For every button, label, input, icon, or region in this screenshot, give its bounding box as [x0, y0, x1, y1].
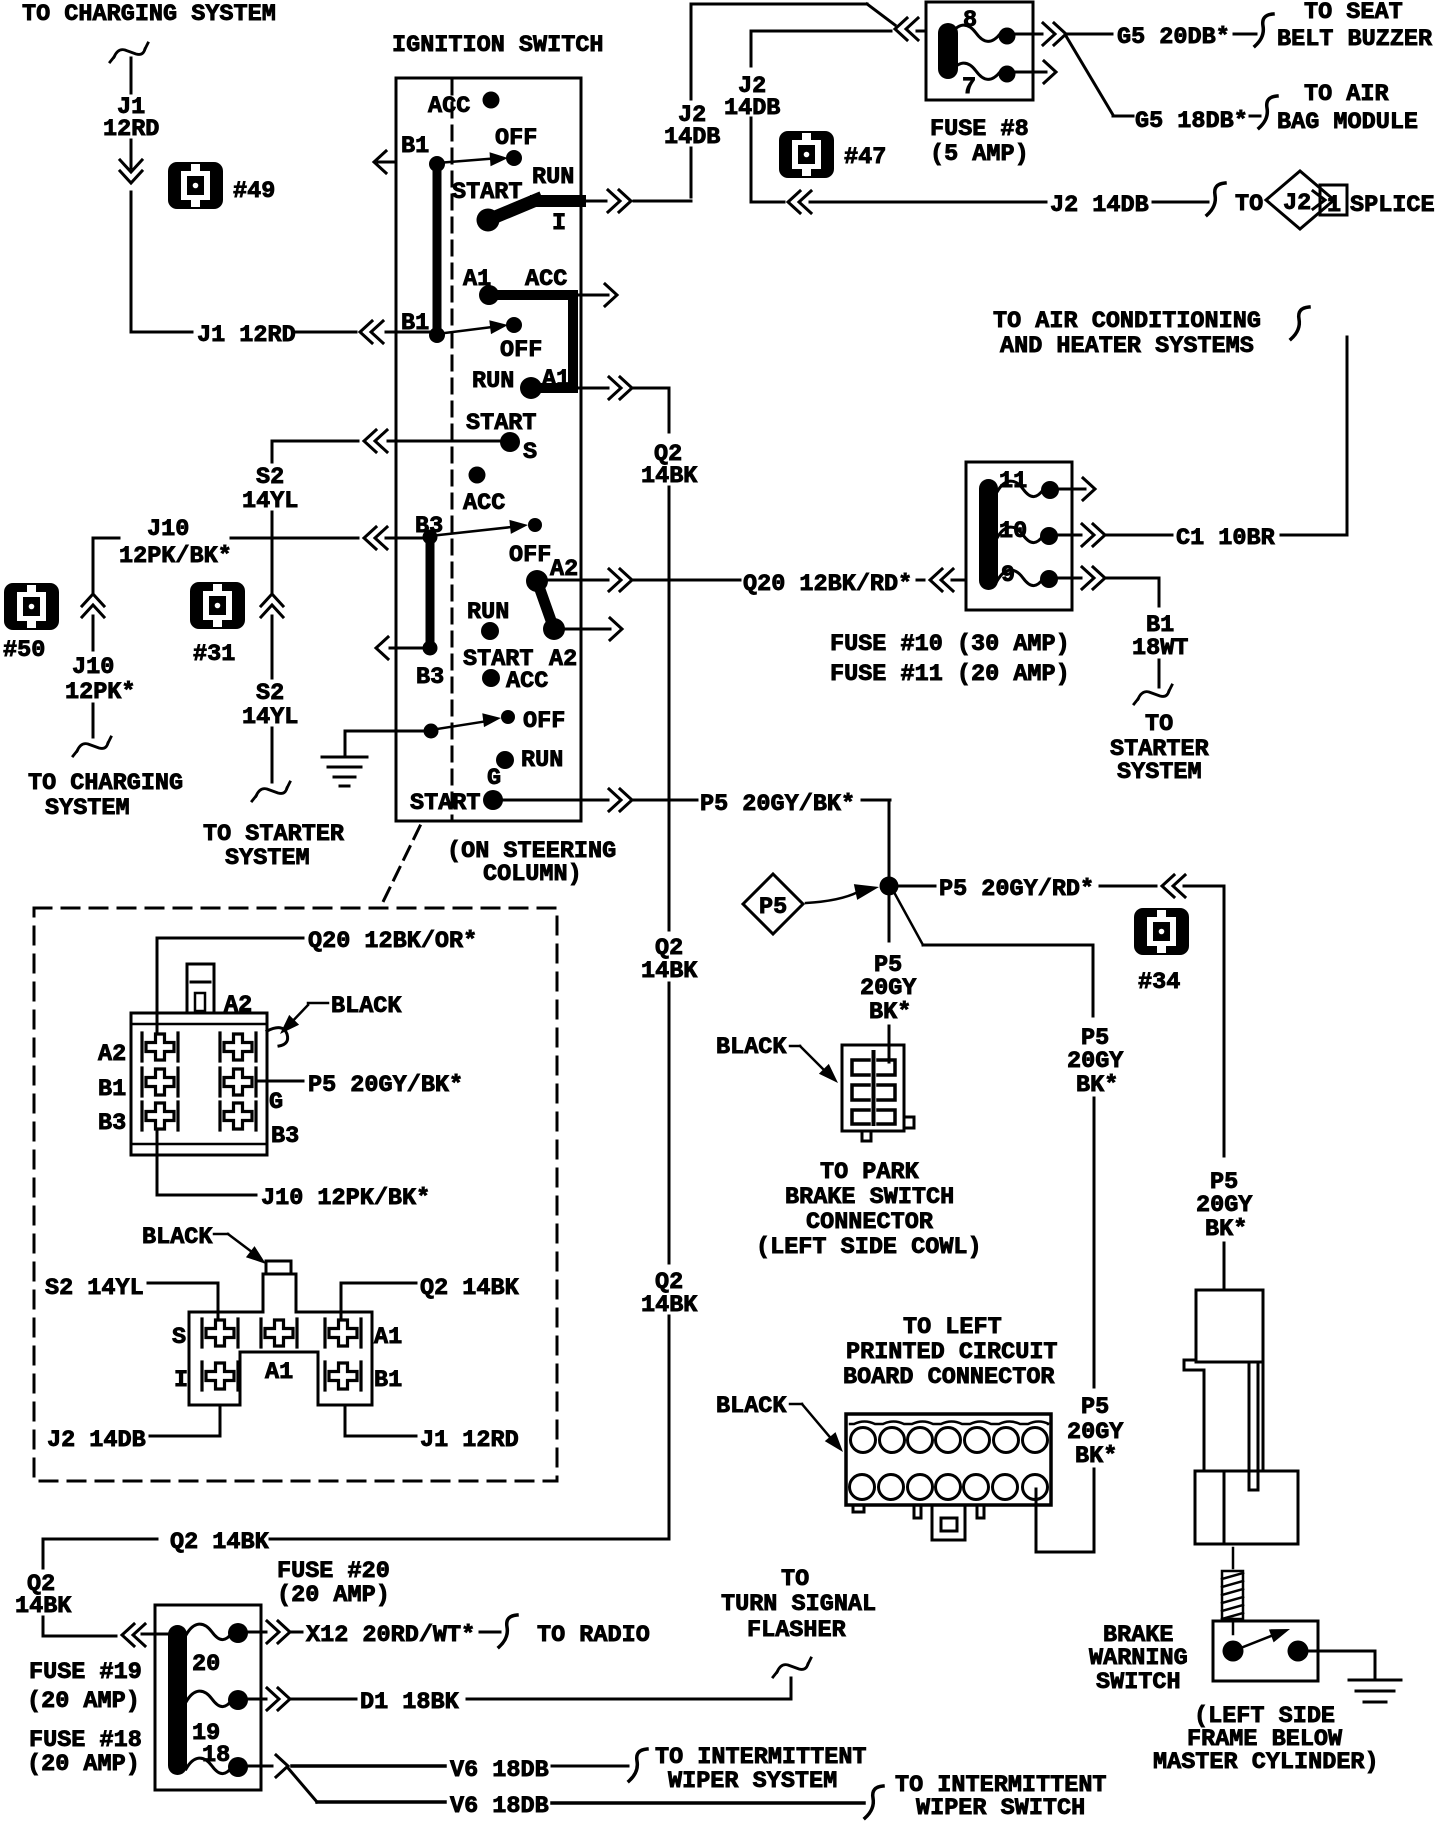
label TO AIR CONDITIONING AND HEATER SYSTEMS	[993, 308, 1261, 360]
wire P5 20GY/BK* (G pin)	[257, 1072, 463, 1099]
svg-text:TO: TO	[1145, 711, 1173, 738]
svg-text:G5 18DB*: G5 18DB*	[1135, 108, 1248, 135]
wire pin 8 out	[1016, 33, 1112, 36]
label RUN A1 (lower)	[472, 366, 570, 395]
wire V6 18DB (wiper system)	[248, 1765, 445, 1768]
svg-text:B1: B1	[98, 1076, 126, 1103]
wire into S terminal	[388, 440, 499, 443]
terminal START G	[410, 790, 503, 817]
wire P5 right vertical to brake warning switch	[1223, 1243, 1226, 1290]
wire P5 into PCB connector	[1036, 1469, 1094, 1552]
splice reference diamond P5	[743, 874, 803, 934]
svg-text:V6 18DB: V6 18DB	[450, 1757, 549, 1784]
B3 bus bar (thick)	[426, 540, 435, 648]
label TO AIR BAG MODULE	[1277, 81, 1418, 136]
fuse element pin 19	[186, 1690, 248, 1710]
label TO PARK BRAKE SWITCH CONNECTOR (LEFT SIDE COWL)	[756, 1159, 982, 1261]
svg-text:J10 12PK/BK*: J10 12PK/BK*	[261, 1185, 430, 1212]
svg-text:A1: A1	[265, 1359, 293, 1386]
node: TO CHARGING SYSTEM label (top)	[22, 1, 276, 28]
label TO CHARGING SYSTEM (bottom)	[28, 770, 183, 822]
pin B1 (ignition connector)	[142, 1068, 178, 1096]
svg-text:A2: A2	[224, 992, 252, 1019]
svg-text:J2: J2	[1283, 190, 1311, 217]
fuse 8 pin 8 label	[963, 7, 977, 34]
connector #34	[1134, 908, 1189, 996]
svg-text:START: START	[452, 179, 523, 206]
label (ON STEERING COLUMN)	[447, 838, 616, 888]
wire J10 12PK/BK* (B3 pin)	[157, 1130, 430, 1212]
wire B1 18WT lower	[1158, 660, 1161, 687]
svg-text:AND HEATER SYSTEMS: AND HEATER SYSTEMS	[1000, 333, 1254, 360]
svg-text:B3: B3	[98, 1110, 126, 1137]
svg-text:G: G	[487, 765, 501, 792]
contact OFF dot (lower B1 row)	[500, 317, 542, 364]
label P5 20GY BK* (park brake wire)	[860, 952, 917, 1026]
svg-text:1: 1	[1327, 192, 1341, 219]
svg-text:BLACK: BLACK	[331, 993, 402, 1020]
svg-text:OFF: OFF	[523, 708, 565, 735]
label J1 12RD (vertical wire)	[103, 94, 159, 143]
connector chevrons on START wire	[609, 789, 632, 811]
connector chevrons on J10 wire	[364, 527, 387, 549]
wire to intermittent wiper system brace	[552, 1749, 647, 1781]
svg-text:Q20 12BK/OR*: Q20 12BK/OR*	[308, 928, 477, 955]
terminal B3 lower dot and open chevron	[376, 637, 444, 691]
wire ground row	[345, 731, 424, 756]
terminal ACC (top)	[428, 92, 500, 121]
svg-text:B1: B1	[401, 310, 429, 337]
wire ACC arrow out	[578, 284, 617, 306]
label Q2 14BK (1)	[641, 441, 698, 490]
svg-text:OFF: OFF	[509, 542, 551, 569]
fuse 10/11 caption	[830, 631, 1070, 688]
fuse element pin 9	[997, 570, 1058, 588]
svg-text:TO CHARGING: TO CHARGING	[28, 770, 183, 797]
svg-text:FUSE #8: FUSE #8	[930, 116, 1029, 143]
label J2 14DB (splice wire)	[1050, 192, 1149, 219]
svg-text:ACC: ACC	[506, 668, 548, 695]
svg-text:FLASHER: FLASHER	[747, 1617, 847, 1644]
svg-text:Q20 12BK/RD*: Q20 12BK/RD*	[743, 571, 912, 598]
fuse #10/#11 box	[966, 462, 1072, 610]
svg-text:BRAKE SWITCH: BRAKE SWITCH	[785, 1184, 954, 1211]
label START (S row)	[466, 410, 537, 437]
svg-text:FUSE #19: FUSE #19	[29, 1659, 142, 1686]
svg-text:BLACK: BLACK	[716, 1034, 787, 1061]
fuse pin 9 label	[1001, 562, 1015, 589]
wire Q2 down-left corner	[42, 1539, 45, 1568]
switch lever A2 (thick)	[526, 570, 565, 640]
leader from P5 diamond to junction	[806, 879, 881, 903]
label J10 12PK/BK*	[119, 516, 232, 570]
wire to air bag module	[1250, 96, 1277, 128]
svg-text:20GY: 20GY	[1067, 1048, 1124, 1075]
label START A2	[463, 646, 577, 673]
wire Q2 14BK vertical (segment 2)	[668, 487, 671, 930]
pin A2 (ignition connector)	[142, 1033, 178, 1061]
wire J10 lower	[92, 704, 95, 737]
svg-text:FUSE #11 (20 AMP): FUSE #11 (20 AMP)	[830, 661, 1070, 688]
fuse pin 10 label	[999, 518, 1027, 545]
label TO STARTER SYSTEM (left)	[203, 821, 345, 872]
wire P5 to right corner	[1184, 886, 1224, 1156]
wire into master cylinder	[1223, 1258, 1226, 1290]
fuse 8 pin 7 label	[962, 74, 976, 101]
wire J1 12RD vertical	[130, 58, 133, 332]
wire Q20 12BK/OR*	[157, 938, 303, 1033]
svg-text:I: I	[552, 210, 566, 237]
wire break symbol above J1	[110, 43, 148, 62]
label TO LEFT PRINTED CIRCUIT BOARD CONNECTOR	[843, 1314, 1058, 1391]
wire Q2 14BK vertical (segment 4)	[668, 1316, 671, 1539]
svg-text:TO: TO	[781, 1566, 809, 1593]
wire START out (P5)	[503, 799, 697, 802]
wire into splice brace	[1153, 183, 1225, 215]
inline connector chevrons on S2 vertical	[261, 594, 283, 617]
connector #49	[168, 162, 275, 209]
wire Q20 12BK/RD* into fuse pin 9	[743, 569, 966, 598]
wire pin 9 to B1 18WT	[1058, 578, 1159, 606]
connector chevrons on J2 splice wire	[751, 191, 811, 213]
svg-text:J10: J10	[72, 654, 114, 681]
wire to intermittent wiper switch	[552, 1786, 883, 1818]
connector chevrons on A1 wire	[609, 377, 632, 399]
wire Q2 14BK bottom horizontal	[43, 1538, 669, 1541]
label V6 18DB (1)	[450, 1757, 549, 1784]
svg-text:14DB: 14DB	[724, 95, 780, 122]
connector #50	[3, 583, 59, 664]
terminal ACC dot (middle)	[463, 467, 505, 518]
svg-text:A2: A2	[549, 646, 577, 673]
svg-text:BOARD CONNECTOR: BOARD CONNECTOR	[843, 1364, 1055, 1391]
ground symbol	[322, 757, 367, 786]
fuse 8 caption	[930, 116, 1029, 168]
label 19	[192, 1720, 220, 1747]
wire P5 down from junction	[888, 895, 891, 941]
label RUN (A2 row)	[467, 599, 509, 640]
fuse element pin 10	[997, 527, 1058, 545]
wire I terminal to J2	[581, 200, 691, 203]
label X12 20RD/WT*	[306, 1622, 475, 1649]
fuse 19 caption	[27, 1659, 142, 1715]
fuse 18 caption	[27, 1727, 142, 1778]
pin B3 right (ignition connector)	[220, 1102, 256, 1130]
B1 bus bar (thick)	[433, 165, 442, 333]
wire A2 out to Q20	[546, 579, 740, 582]
wire A2 lower arrow out	[563, 618, 622, 640]
svg-text:ACC: ACC	[428, 93, 470, 120]
pin I (key-in connector)	[202, 1362, 238, 1390]
wire A1 run out to Q2	[578, 387, 669, 390]
svg-text:18WT: 18WT	[1132, 635, 1188, 662]
svg-text:SWITCH: SWITCH	[1096, 1669, 1181, 1696]
svg-text:(20 AMP): (20 AMP)	[27, 1751, 140, 1778]
svg-text:20: 20	[192, 1651, 220, 1678]
label C1 10BR	[1176, 525, 1276, 552]
svg-text:WIPER SYSTEM: WIPER SYSTEM	[668, 1768, 837, 1795]
terminal RUN/A1 dot	[520, 377, 542, 399]
wire J2 14DB (second vertical to splice)	[751, 31, 891, 202]
ignition switch internal dashed line	[451, 80, 454, 819]
fuse element pin 18	[186, 1757, 248, 1777]
svg-text:12PK/BK*: 12PK/BK*	[119, 543, 232, 570]
svg-text:WIPER SWITCH: WIPER SWITCH	[916, 1795, 1085, 1822]
master cylinder bracket	[1184, 1290, 1298, 1544]
connector #31	[190, 582, 245, 668]
park brake switch connector	[842, 1045, 914, 1141]
wire S2 14YL (key-in)	[45, 1275, 218, 1319]
svg-text:SYSTEM: SYSTEM	[45, 795, 130, 822]
label SPLICE	[1350, 192, 1435, 219]
label TO SEAT BELT BUZZER	[1277, 0, 1433, 53]
svg-text:BELT BUZZER: BELT BUZZER	[1277, 26, 1433, 53]
svg-text:FUSE #18: FUSE #18	[29, 1727, 142, 1754]
wire J2 14DB (key-in bottom)	[47, 1405, 220, 1454]
junction node P5	[880, 877, 899, 896]
label J2 14DB (left vertical)	[664, 102, 720, 151]
pin B1 (key-in connector)	[325, 1362, 361, 1390]
svg-text:J10: J10	[147, 516, 189, 543]
svg-text:18: 18	[202, 1742, 230, 1769]
svg-text:14DB: 14DB	[664, 124, 720, 151]
label START (I row)	[452, 179, 523, 206]
terminal B1 (upper)	[401, 133, 429, 160]
wire J1 12RD horizontal to ignition switch B1	[131, 331, 434, 334]
label A2 (connector tab)	[224, 992, 252, 1019]
svg-text:J1 12RD: J1 12RD	[197, 322, 296, 349]
dashed connector detail box	[34, 908, 557, 1481]
label P5 20GY BK* (right wire)	[1196, 1169, 1253, 1243]
svg-text:(20 AMP): (20 AMP)	[27, 1688, 140, 1715]
svg-text:J1 12RD: J1 12RD	[420, 1427, 519, 1454]
fuse #8 box	[926, 2, 1033, 100]
wire break to starter system	[1134, 685, 1172, 704]
svg-text:TURN SIGNAL: TURN SIGNAL	[721, 1591, 876, 1618]
wire J2 14DB (from I terminal up to fuse 8)	[691, 4, 895, 197]
svg-text:V6 18DB: V6 18DB	[450, 1793, 549, 1820]
svg-text:A1: A1	[374, 1324, 402, 1351]
connector chevrons on A2 wire	[609, 569, 632, 591]
svg-text:TO AIR: TO AIR	[1304, 81, 1390, 108]
svg-text:BK*: BK*	[1075, 1443, 1117, 1470]
left printed circuit board connector	[846, 1414, 1051, 1540]
fuse #18/19/20 box	[155, 1605, 261, 1790]
label Q2 14BK (stack)	[15, 1571, 72, 1620]
svg-text:CONNECTOR: CONNECTOR	[806, 1209, 934, 1236]
fuse element pin 8	[950, 25, 1016, 44]
ground symbol (brake switch)	[1349, 1680, 1401, 1702]
svg-text:P5: P5	[1081, 1394, 1109, 1421]
wire S2 14YL (from S terminal)	[272, 441, 358, 462]
pin S (key-in connector)	[202, 1319, 238, 1347]
svg-text:12PK*: 12PK*	[65, 679, 136, 706]
svg-text:A1: A1	[542, 366, 570, 393]
svg-text:(5 AMP): (5 AMP)	[930, 141, 1029, 168]
svg-text:TO PARK: TO PARK	[820, 1159, 920, 1186]
label TO INTERMITTENT WIPER SWITCH	[895, 1772, 1107, 1822]
svg-text:RUN: RUN	[467, 599, 509, 626]
switch wiper ground to OFF	[424, 711, 502, 738]
pin (right top, ignition connector)	[220, 1033, 256, 1061]
fuse element pin 11	[997, 481, 1059, 499]
svg-text:J2 14DB: J2 14DB	[1050, 192, 1149, 219]
terminal A1 with ACC label	[463, 266, 567, 293]
svg-text:14YL: 14YL	[242, 704, 298, 731]
ignition switch box	[396, 78, 581, 821]
label TO TURN SIGNAL FLASHER	[721, 1566, 876, 1644]
svg-text:FUSE #10 (30 AMP): FUSE #10 (30 AMP)	[830, 631, 1070, 658]
ignition switch title	[392, 32, 604, 59]
fuse pin 11 label	[999, 468, 1027, 495]
svg-text:TO LEFT: TO LEFT	[903, 1314, 1002, 1341]
label B1 18WT	[1132, 612, 1188, 662]
label 20	[192, 1651, 220, 1678]
fuse element pin 7	[950, 63, 1016, 82]
wire break (charging system)	[73, 737, 111, 756]
svg-text:ACC: ACC	[463, 490, 505, 517]
switch wiper lower B1 to OFF	[429, 318, 509, 343]
svg-text:G5 20DB*: G5 20DB*	[1117, 24, 1230, 51]
svg-text:BK*: BK*	[869, 999, 911, 1026]
svg-text:X12 20RD/WT*: X12 20RD/WT*	[306, 1622, 475, 1649]
wire pin 7 arrow out	[1016, 61, 1056, 83]
wire into park brake connector	[888, 1026, 891, 1062]
fuse 18/19/20 bus pill	[168, 1625, 187, 1775]
wire to seat belt buzzer	[1234, 14, 1273, 46]
svg-text:A2: A2	[98, 1041, 126, 1068]
svg-text:14BK: 14BK	[641, 958, 698, 985]
svg-text:S: S	[523, 439, 537, 466]
svg-text:SYSTEM: SYSTEM	[1117, 759, 1202, 786]
label (LEFT SIDE FRAME BELOW MASTER CYLINDER)	[1153, 1703, 1379, 1776]
wire break (starter system)	[252, 782, 290, 801]
connector chevron pin 18	[276, 1755, 288, 1777]
svg-text:TO STARTER: TO STARTER	[203, 821, 345, 848]
wire P5 middle vertical	[1093, 1098, 1096, 1387]
svg-text:START: START	[466, 410, 537, 437]
svg-text:BAG MODULE: BAG MODULE	[1277, 109, 1418, 136]
svg-text:S: S	[172, 1324, 186, 1351]
svg-text:BLACK: BLACK	[716, 1393, 787, 1420]
svg-text:START: START	[410, 790, 481, 817]
wire Q2 into fuse 20	[43, 1617, 168, 1636]
label BLACK (PCB connector)	[716, 1393, 848, 1456]
label Q20 12BK/OR*	[308, 928, 477, 955]
wire J2 14DB to splice	[810, 201, 1046, 204]
label RUN (I row)	[532, 164, 574, 191]
label Q2 14BK (3)	[641, 1269, 698, 1319]
switch wiper B3 to OFF	[423, 518, 529, 544]
wire V6 18DB diagonal branch	[288, 1768, 445, 1802]
connector chevrons pin 9	[1082, 567, 1105, 589]
wire Q2 14BK (key-in)	[341, 1275, 520, 1319]
contact OFF (B1 row)	[495, 125, 537, 166]
inline connector chevrons on J10 vertical	[82, 594, 104, 617]
wire Q2 14BK vertical (segment 1)	[668, 388, 671, 432]
switch wiper B1 to OFF	[429, 151, 508, 172]
svg-text:14YL: 14YL	[242, 488, 298, 515]
wire C1 10BR vertical	[1281, 337, 1347, 535]
pin G (ignition connector)	[220, 1068, 256, 1096]
label BLACK (park brake connector)	[716, 1034, 843, 1088]
label Q2 14BK (2)	[641, 935, 698, 985]
connector chevrons into fuse 20	[122, 1624, 145, 1646]
label D1 18BK	[360, 1689, 460, 1716]
terminal ACC dot (A2 row)	[482, 668, 548, 695]
svg-text:(LEFT SIDE COWL): (LEFT SIDE COWL)	[756, 1234, 982, 1261]
wire break (turn signal flasher)	[773, 1658, 811, 1677]
inline connector chevrons on J1 wire	[120, 160, 142, 183]
svg-text:BLACK: BLACK	[142, 1224, 213, 1251]
svg-text:C1 10BR: C1 10BR	[1176, 525, 1276, 552]
wire Q2 14BK vertical (segment 3)	[668, 983, 671, 1263]
connector chevrons into ignition switch B1	[360, 321, 383, 343]
fuse 8 bus pill	[938, 23, 958, 79]
svg-text:TO CHARGING SYSTEM: TO CHARGING SYSTEM	[22, 1, 276, 28]
svg-text:RUN: RUN	[532, 164, 574, 191]
label BRAKE WARNING SWITCH	[1089, 1622, 1188, 1696]
brake warning switch contacts	[1223, 1622, 1309, 1661]
terminal B1 (lower)	[401, 310, 429, 337]
svg-text:BK*: BK*	[1205, 1216, 1247, 1243]
label S2 14YL (upper)	[242, 464, 298, 515]
label V6 18DB (2)	[450, 1793, 549, 1820]
labels A2 B1 B3 G B3	[98, 1041, 299, 1150]
svg-text:TO INTERMITTENT: TO INTERMITTENT	[655, 1744, 867, 1771]
svg-text:7: 7	[962, 74, 976, 101]
fuse 20 caption	[277, 1558, 390, 1609]
key-in switch connector body	[189, 1261, 372, 1405]
svg-text:RUN: RUN	[521, 747, 563, 774]
svg-text:OFF: OFF	[500, 337, 542, 364]
wire P5 20GY/BK* label (START wire)	[700, 791, 855, 818]
brake warning switch plunger spring	[1222, 1548, 1243, 1634]
wire P5 20GY/RD* to brake switch	[898, 876, 1156, 903]
svg-text:ACC: ACC	[525, 266, 567, 293]
label J2 14DB (second vertical)	[724, 73, 780, 122]
wire pin 10 to C1	[1058, 534, 1172, 537]
svg-text:S2: S2	[256, 680, 284, 707]
label RUN G	[487, 747, 563, 792]
connector chevrons pin 8	[1043, 23, 1066, 45]
svg-text:TO: TO	[1235, 191, 1263, 218]
svg-text:P5 20GY/BK*: P5 20GY/BK*	[308, 1072, 463, 1099]
terminal S	[500, 432, 537, 466]
svg-text:D1 18BK: D1 18BK	[360, 1689, 460, 1716]
label BLACK (key-in connector)	[142, 1224, 270, 1270]
wire P5 diagonal branch	[895, 894, 1093, 1016]
svg-text:S2: S2	[256, 464, 284, 491]
wire pin 11 arrow out	[1059, 478, 1095, 500]
svg-text:TO RADIO: TO RADIO	[537, 1622, 650, 1649]
wire J1 12RD (key-in bottom)	[345, 1405, 519, 1454]
svg-text:12RD: 12RD	[103, 116, 159, 143]
wire S2 vertical	[271, 512, 274, 678]
brake warning switch box	[1213, 1621, 1318, 1681]
contact OFF dot (B3 row)	[509, 518, 551, 569]
svg-text:SYSTEM: SYSTEM	[225, 845, 310, 872]
svg-text:I: I	[174, 1367, 188, 1394]
pin center (key-in connector)	[261, 1319, 297, 1347]
wire X12 out of fuse 20	[248, 1631, 302, 1634]
svg-text:20GY: 20GY	[860, 975, 917, 1002]
svg-text:#47: #47	[844, 144, 886, 171]
label G5 18DB*	[1135, 108, 1248, 135]
label G5 20DB*	[1117, 24, 1230, 51]
label BLACK (ignition connector)	[275, 993, 402, 1039]
wire S2 lowest	[271, 728, 274, 782]
